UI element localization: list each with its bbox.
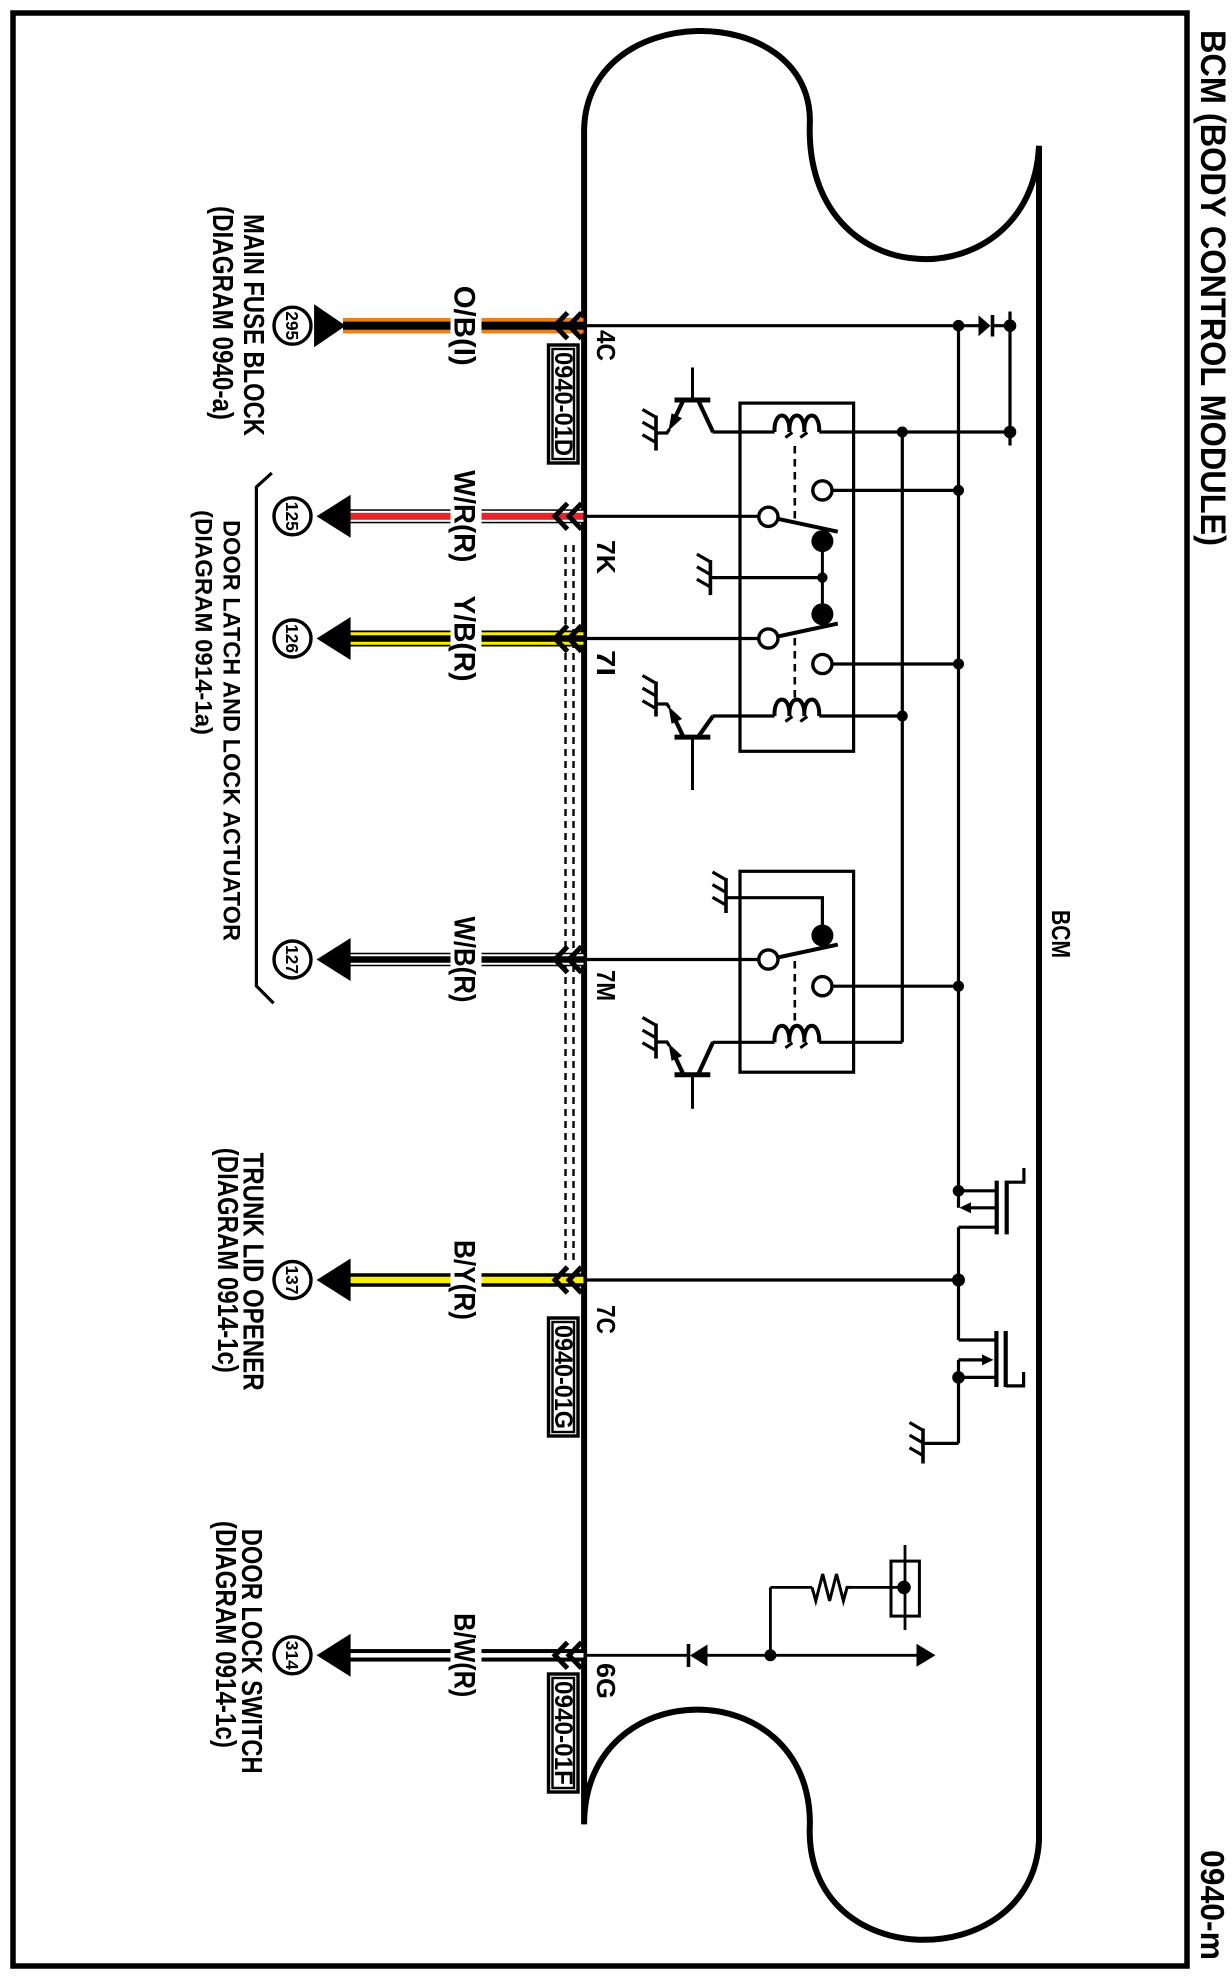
wire 6G sense (vertical) — [584, 1654, 687, 1657]
wire B/Y(R) black/yellow colored — [348, 1273, 584, 1287]
svg-text:7I: 7I — [591, 650, 621, 676]
ground G6 — [910, 1423, 924, 1464]
wire B/W(R) black/white colored — [348, 1649, 584, 1662]
NC contact dot K1b — [811, 603, 833, 625]
svg-text:BCM: BCM — [1046, 910, 1076, 958]
wire O/B(I) orange/black colored — [343, 318, 584, 334]
bracket door latch group — [256, 473, 273, 1003]
door lock switch box — [891, 1561, 919, 1616]
terminal arrow 125 — [317, 495, 351, 538]
node rail-coil — [1004, 426, 1017, 439]
svg-text:7M: 7M — [591, 970, 621, 1001]
connector 7 dashed housing lines — [572, 545, 574, 1262]
wire K2 NC to ground — [726, 898, 822, 936]
wire 7C trunk lid output (vertical) — [584, 1278, 959, 1281]
relay K1 box — [740, 403, 854, 751]
wire 4C battery feed (vertical) — [584, 324, 959, 327]
switch contact dot — [897, 1581, 911, 1595]
switch arm K1b — [768, 624, 837, 639]
wire 6G to comparator arrow — [770, 1654, 918, 1657]
switch arm K2 — [768, 945, 837, 960]
svg-text:314: 314 — [282, 1641, 302, 1670]
wire contact B to bus — [831, 662, 958, 665]
svg-text:7C: 7C — [591, 1305, 621, 1334]
svg-text:(DIAGRAM 0940-a): (DIAGRAM 0940-a) — [206, 206, 238, 420]
transistor Q1 — [656, 368, 713, 434]
BCM module outline — [584, 31, 1039, 1940]
svg-text:(DIAGRAM 0914-1c): (DIAGRAM 0914-1c) — [211, 1148, 243, 1373]
node contact A bus — [953, 485, 964, 496]
terminal circle 126 — [274, 620, 311, 657]
mechanical link K1b (dashed) — [793, 638, 796, 702]
wire pullup (vertical) — [770, 1586, 812, 1589]
wire W/B(R) white/black colored — [348, 953, 584, 967]
svg-text:DOOR LATCH AND LOCK ACTUATOR: DOOR LATCH AND LOCK ACTUATOR — [218, 520, 245, 941]
node coil bus left — [897, 427, 908, 438]
svg-text:125: 125 — [282, 502, 302, 531]
MOSFET Q5 — [959, 1331, 1024, 1387]
terminal circle 125 — [274, 498, 311, 535]
connector chevrons 7K — [555, 503, 582, 529]
svg-text:B/W(R): B/W(R) — [448, 1613, 481, 1697]
ground G1 — [643, 410, 657, 451]
connector chevrons 4C — [555, 313, 582, 339]
wire coil K2 (vertical) — [819, 1041, 902, 1044]
arrow to logic — [917, 1644, 936, 1667]
ground G3 — [643, 676, 657, 717]
wire coil bus (lower) — [901, 432, 904, 1042]
diode D1 (battery) — [979, 315, 1011, 337]
node rail-diode — [1004, 319, 1017, 332]
terminal arrow 126 — [317, 617, 351, 660]
transistor Q2 — [656, 704, 713, 790]
svg-text:137: 137 — [282, 1266, 302, 1295]
wire pin 7M to pivot — [584, 958, 768, 961]
wire contact bus (middle) — [957, 326, 960, 1208]
wire pullup link — [769, 1587, 772, 1655]
relay K2 box — [740, 871, 854, 1072]
node contact K2 bus — [953, 981, 964, 992]
reference box 0940-01D — [549, 345, 579, 463]
terminal arrow 295 — [314, 304, 346, 347]
mechanical link K1a (dashed) — [793, 446, 796, 519]
svg-text:0940-01D: 0940-01D — [549, 352, 577, 456]
contact A terminal — [813, 481, 832, 500]
node Q5 source — [952, 1371, 965, 1384]
svg-text:127: 127 — [282, 945, 302, 974]
terminal arrow 314 — [317, 1634, 351, 1677]
transistor Q3 — [656, 1042, 713, 1109]
node 4C junction — [953, 320, 965, 332]
wire Y/B(R) yellow/black colored — [348, 631, 584, 647]
connector chevrons 7I — [555, 626, 582, 652]
node 7C junction — [952, 1274, 965, 1287]
pivot K2 — [759, 950, 778, 969]
wire coil K1a (vertical) — [819, 430, 1010, 433]
node NC mid — [817, 572, 827, 582]
resistor R1 — [812, 1574, 852, 1601]
svg-text:(DIAGRAM 0914-1a): (DIAGRAM 0914-1a) — [190, 510, 217, 735]
NC contact dot K1a — [811, 530, 833, 552]
svg-text:B/Y(R): B/Y(R) — [448, 1240, 481, 1320]
terminal circle 127 — [274, 941, 311, 978]
svg-text:O/B(I): O/B(I) — [448, 286, 481, 366]
pivot K1b — [759, 629, 778, 648]
contact K2 terminal — [813, 977, 832, 996]
wire contact K2 to bus — [831, 985, 958, 988]
svg-text:4C: 4C — [591, 330, 621, 361]
ground G5 — [643, 1018, 657, 1059]
node Q4 drain — [953, 1185, 965, 1197]
wire resistor to switch — [852, 1586, 905, 1589]
svg-text:126: 126 — [282, 624, 302, 653]
switch arm K1a — [768, 517, 837, 532]
wire pin 7I to pivot — [584, 637, 768, 640]
terminal arrow 137 — [317, 1259, 351, 1302]
svg-text:(DIAGRAM 0914-1c): (DIAGRAM 0914-1c) — [209, 1521, 241, 1748]
connector chevrons 7M — [555, 947, 582, 973]
svg-text:MAIN FUSE BLOCK: MAIN FUSE BLOCK — [237, 214, 269, 436]
svg-text:7K: 7K — [591, 540, 621, 574]
contact B terminal — [813, 654, 832, 673]
terminal circle 314 — [274, 1637, 311, 1674]
connector chevrons 6G — [555, 1642, 582, 1668]
terminal arrow 127 — [317, 938, 351, 981]
wire battery rail (top) — [1008, 312, 1011, 446]
reference box 0940-01F — [549, 1674, 579, 1792]
svg-text:6G: 6G — [591, 1663, 621, 1699]
NC contact dot K2 — [811, 925, 833, 947]
svg-text:0940-m: 0940-m — [1194, 1850, 1231, 1960]
svg-text:W/R(R): W/R(R) — [448, 470, 481, 562]
svg-text:295: 295 — [282, 311, 302, 340]
wire diode link — [959, 324, 980, 327]
reference box 0940-01G — [549, 1318, 579, 1436]
terminal circle 295 — [274, 307, 311, 344]
relay coil K2 — [774, 1026, 819, 1048]
wire W/R(R) white/red colored — [348, 509, 584, 523]
terminal circle 137 — [274, 1262, 311, 1299]
mechanical link K2 (dashed) — [793, 961, 796, 1023]
diode D2 (6G) — [689, 1644, 771, 1667]
ground G2 — [697, 554, 711, 595]
ground G4 — [713, 872, 727, 913]
switch wiper line — [904, 1545, 907, 1630]
wire contact A to bus — [831, 489, 958, 492]
wire NC mid to ground — [710, 576, 822, 579]
wire Q5 source to ground — [923, 1442, 959, 1445]
MOSFET Q4 — [959, 1168, 1024, 1234]
relay coil K1a — [774, 416, 819, 438]
node coil bus mid — [897, 711, 908, 722]
svg-text:W/B(R): W/B(R) — [448, 917, 481, 1003]
svg-text:BCM (BODY CONTROL MODULE): BCM (BODY CONTROL MODULE) — [1193, 30, 1232, 546]
node 6G junction — [764, 1649, 776, 1661]
svg-text:0940-01F: 0940-01F — [549, 1681, 577, 1785]
svg-text:0940-01G: 0940-01G — [549, 1325, 577, 1429]
wire pin 7K to pivot — [584, 515, 768, 518]
connector chevrons 7C — [555, 1267, 582, 1293]
wire NC bridge — [821, 541, 824, 614]
pivot K1a — [759, 507, 778, 526]
relay coil K1b — [774, 700, 819, 722]
wire coil K1b (vertical) — [819, 714, 902, 717]
svg-text:Y/B(R): Y/B(R) — [448, 596, 481, 682]
node contact B bus — [953, 659, 964, 670]
